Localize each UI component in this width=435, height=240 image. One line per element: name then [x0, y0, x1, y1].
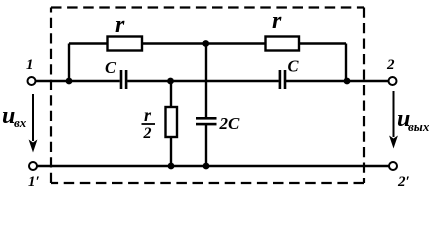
wire: r/2 branch upper	[170, 81, 172, 107]
svg-text:1: 1	[26, 57, 34, 73]
wire: bottom rail	[36, 165, 390, 167]
svg-text:2′: 2′	[397, 174, 410, 190]
wire: left vertical branch	[68, 44, 70, 82]
junction: r/2 top on middle rail	[167, 78, 174, 85]
arrow u_vx (input voltage)	[29, 94, 38, 153]
capacitor C2 plates	[279, 70, 287, 89]
capacitor C1 plates	[120, 70, 128, 89]
svg-text:C: C	[288, 57, 300, 76]
svg-text:вх: вх	[14, 115, 27, 130]
wire: middle rail segment from C2 to terminal 2	[286, 80, 390, 82]
wire: middle rail segment from terminal 1 to C1	[34, 80, 120, 82]
terminal 2	[389, 77, 397, 85]
wire: right vertical branch	[345, 44, 347, 82]
terminal 2'	[389, 162, 397, 170]
terminal 1'	[29, 162, 37, 170]
resistor r/2 (vertical)	[166, 107, 178, 137]
junction: r/2 bottom on bottom rail	[168, 163, 175, 170]
label r/2 fraction	[142, 105, 156, 142]
wire: 2C branch lower	[205, 125, 207, 167]
junction: right branch / middle rail	[344, 78, 351, 85]
arrow u_vyx (output voltage)	[389, 91, 398, 149]
svg-text:2: 2	[386, 57, 395, 73]
wire: 2C branch upper	[205, 44, 207, 119]
svg-text:2C: 2C	[219, 114, 241, 133]
wire: top rail between branch points	[69, 42, 346, 44]
junction: left branch / middle rail	[66, 78, 73, 85]
junction: top mid node	[202, 40, 209, 47]
junction: 2C bottom on bottom rail	[203, 163, 210, 170]
resistor r (right, R2)	[266, 37, 300, 51]
svg-text:r: r	[272, 8, 282, 34]
wire: r/2 branch lower	[170, 137, 172, 166]
svg-text:r: r	[115, 12, 125, 38]
dashed enclosure box	[51, 8, 364, 184]
svg-text:r: r	[144, 105, 152, 125]
terminal 1	[28, 77, 36, 85]
svg-text:вых: вых	[408, 119, 430, 134]
svg-text:C: C	[105, 58, 117, 77]
label u_vyx	[397, 106, 430, 134]
label u_vx	[2, 103, 27, 130]
svg-text:1′: 1′	[28, 174, 40, 190]
svg-text:2: 2	[143, 125, 152, 142]
capacitor 2C plates (horizontal)	[196, 117, 217, 125]
resistor r (left, R1)	[108, 37, 143, 51]
wire: middle rail segment between C1 and C2	[127, 80, 279, 82]
